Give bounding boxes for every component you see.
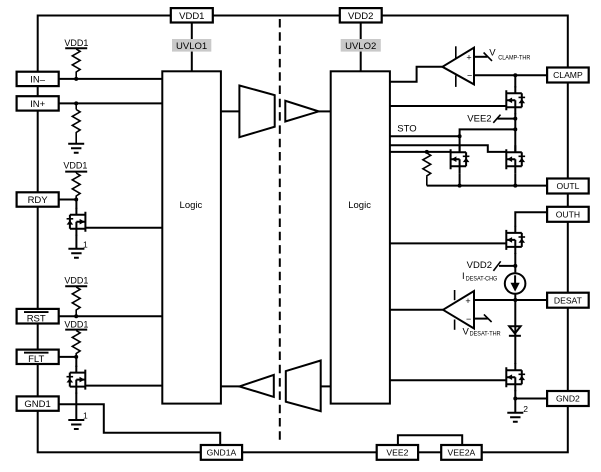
wire bottom channel to Logic (left): [221, 385, 240, 387]
transistor Q1 (RDY open drain): [67, 208, 86, 236]
ground 2: [507, 404, 528, 422]
pin IN-: [17, 72, 59, 86]
ground (IN+ pull-down): [68, 144, 84, 153]
svg-text:V: V: [463, 327, 470, 338]
node VDD1 (RST pull-up): [64, 276, 88, 287]
svg-text:IN+: IN+: [30, 99, 46, 110]
node junction IN+: [74, 101, 78, 105]
svg-text:CLAMP-THR: CLAMP-THR: [498, 55, 530, 62]
resistor R3 (RDY pull-up): [72, 172, 80, 200]
wire Logic to Q6 gate: [390, 242, 506, 244]
wire Q7 source to ground: [514, 390, 516, 413]
wire RDY junction to mosfet: [75, 200, 77, 210]
pin FLT (active low): [17, 350, 59, 365]
node V CLAMP-THR: [484, 48, 531, 62]
svg-text:VDD1: VDD1: [64, 276, 88, 286]
pin RDY: [17, 192, 59, 206]
node junction GND2: [513, 397, 517, 401]
isolation channel TX (reverse): [286, 361, 321, 412]
svg-text:2: 2: [523, 404, 528, 414]
svg-text:I: I: [462, 271, 465, 282]
svg-text:DESAT-THR: DESAT-THR: [470, 330, 501, 337]
svg-text:FLT: FLT: [28, 354, 44, 365]
svg-text:UVLO2: UVLO2: [345, 41, 376, 52]
wire VEE2 to VEE2A bracket: [398, 435, 462, 445]
pin VDD2: [340, 8, 382, 22]
wire FLT: [59, 356, 76, 358]
wire Logic to Q7 gate: [390, 379, 506, 381]
node junction CLAMP: [513, 73, 517, 77]
svg-text:GND1A: GND1A: [207, 448, 237, 458]
wire RDY mosfet gate to Logic: [85, 227, 162, 229]
op-amp desat comparator: [443, 290, 474, 330]
wire Logic to top channel: [221, 110, 240, 112]
wire Logic to Q5 gate (stepped): [390, 145, 506, 152]
wire Q3 source down to Q5 drain: [514, 113, 516, 152]
node V DESAT-THR: [463, 314, 501, 337]
pin IN+: [17, 96, 59, 110]
svg-text:OUTH: OUTH: [556, 209, 580, 219]
svg-text:CLAMP: CLAMP: [553, 70, 583, 80]
wire desat comparator - input stub: [474, 318, 488, 320]
wire junction to GND2 pin: [515, 398, 547, 400]
pin OUTL: [547, 179, 589, 194]
wire desat comparator + input to DESAT pin: [474, 299, 547, 301]
svg-text:IN–: IN–: [30, 74, 46, 85]
svg-text:OUTL: OUTL: [556, 181, 579, 191]
block Logic U2: [331, 71, 390, 403]
svg-text:VDD1: VDD1: [179, 11, 204, 22]
svg-text:Logic: Logic: [180, 200, 203, 211]
pin CLAMP: [547, 68, 589, 83]
svg-text:DESAT-CHG: DESAT-CHG: [466, 276, 498, 283]
isolation channel RX buffer (reverse): [239, 375, 273, 397]
wire Q1 source to ground: [75, 235, 77, 249]
wire clamp comparator - input to CLAMP pin: [474, 74, 547, 76]
isolation channel TX (forward): [239, 86, 274, 138]
svg-text:VEE2: VEE2: [467, 114, 491, 125]
pin VDD1: [171, 8, 213, 22]
isolation channel RX buffer (forward): [285, 101, 318, 122]
pin RST (active low): [17, 309, 59, 324]
ground 1 (RDY): [68, 240, 88, 258]
svg-text:DESAT: DESAT: [554, 295, 583, 305]
pin OUTH: [547, 207, 589, 222]
svg-text:UVLO1: UVLO1: [176, 41, 207, 52]
transistor Q2 (FLT open drain): [67, 366, 86, 394]
pin GND1: [17, 396, 59, 410]
block UVLO1: [172, 39, 211, 52]
node junction RDY: [74, 198, 78, 202]
svg-text:STO: STO: [397, 124, 416, 135]
op-amp clamp comparator: [442, 46, 474, 87]
wire OUTL rail: [427, 173, 547, 187]
wire IN+ to Logic: [59, 102, 163, 104]
wire OUTH pin to Q6 drain: [515, 212, 547, 226]
pin DESAT: [547, 293, 589, 308]
svg-text:VDD1: VDD1: [64, 38, 88, 48]
block Logic U1: [162, 71, 221, 403]
node junction DESAT: [513, 298, 517, 302]
svg-text:V: V: [489, 48, 496, 59]
wire DESAT junction to diode: [514, 300, 516, 364]
transistor Q4 (pull-down): [451, 145, 470, 173]
wire FLT mosfet gate to Logic: [85, 385, 162, 387]
wire RDY: [59, 199, 76, 201]
svg-text:−: −: [467, 71, 472, 81]
wire Logic to Q4 gate: [390, 151, 451, 153]
svg-text:RDY: RDY: [28, 195, 49, 206]
wire Logic to Q3 gate: [390, 105, 506, 107]
wire GND1 to GND1A: [59, 404, 221, 445]
svg-text:+: +: [465, 296, 470, 306]
isolation barrier dashed line: [279, 19, 281, 443]
pin GND2: [547, 391, 589, 406]
svg-text:1: 1: [83, 411, 88, 421]
svg-text:GND1: GND1: [24, 399, 50, 410]
svg-text:+: +: [466, 53, 471, 63]
svg-text:VEE2: VEE2: [386, 448, 408, 458]
current source I DESAT-CHG: [462, 271, 525, 294]
node VEE2: [467, 114, 517, 125]
svg-text:VDD2: VDD2: [467, 260, 492, 271]
node VDD1 (FLT pull-up): [64, 320, 88, 330]
svg-text:RST: RST: [27, 313, 46, 324]
resistor R2 (IN+ pull-down): [72, 103, 80, 143]
node VDD1 (RDY pull-up): [63, 160, 87, 171]
transistor Q7 (desat discharge): [506, 363, 525, 391]
node junction RST: [74, 314, 78, 318]
node junction gate resistor: [425, 150, 429, 154]
svg-text:GND2: GND2: [556, 394, 580, 404]
wire CLAMP to clamp mosfet drain: [514, 75, 516, 87]
transistor Q3 (clamp): [506, 86, 525, 114]
resistor R4 (RST pull-up): [72, 287, 80, 316]
svg-text:VEE2A: VEE2A: [448, 448, 476, 458]
wire RST to Logic: [59, 315, 163, 317]
node VDD2: [467, 260, 518, 271]
transistor Q5 (pull-down): [506, 145, 525, 173]
svg-text:−: −: [466, 314, 471, 324]
pin GND1A: [201, 445, 242, 460]
node VDD1 (IN- pull-up): [64, 38, 88, 48]
wire IN- to Logic: [59, 78, 163, 80]
ground 1 (FLT): [68, 411, 88, 429]
wire Logic to clamp comparator output: [390, 67, 443, 82]
wire clamp comparator + input stub: [474, 56, 487, 58]
wire FLT junction to mosfet: [75, 357, 77, 367]
transistor Q6 (OUTH): [506, 226, 525, 254]
wire VDD1 to UVLO1 to Logic: [191, 23, 193, 72]
wire Logic to bottom channel: [321, 385, 331, 387]
node junction IN-: [74, 77, 78, 81]
svg-text:VDD1: VDD1: [63, 160, 87, 170]
svg-text:VDD2: VDD2: [348, 11, 373, 22]
resistor R5 (FLT pull-up): [72, 331, 80, 357]
pin VEE2: [377, 445, 418, 460]
wire top channel to Logic: [319, 110, 331, 112]
wire STO from Logic: [390, 124, 462, 139]
block UVLO2: [341, 39, 381, 52]
node junction FLT: [74, 355, 78, 359]
wire Q4 drain link to VEE2 node: [460, 127, 518, 152]
resistor R1 (IN- pull-up): [72, 49, 80, 79]
wire Q6 source to current source: [514, 253, 516, 273]
wire desat comparator output to Logic: [390, 309, 443, 311]
wire VDD2 to UVLO2 to Logic: [360, 23, 362, 72]
diode D1 (desat blocking): [509, 326, 521, 336]
svg-text:1: 1: [83, 240, 88, 250]
wire Q2 source to ground: [75, 393, 77, 420]
svg-text:Logic: Logic: [348, 200, 371, 211]
resistor R6 (STO path): [423, 153, 431, 186]
svg-text:VDD1: VDD1: [64, 320, 88, 330]
pin VEE2A: [441, 445, 482, 460]
wire current source to DESAT line: [514, 294, 516, 300]
